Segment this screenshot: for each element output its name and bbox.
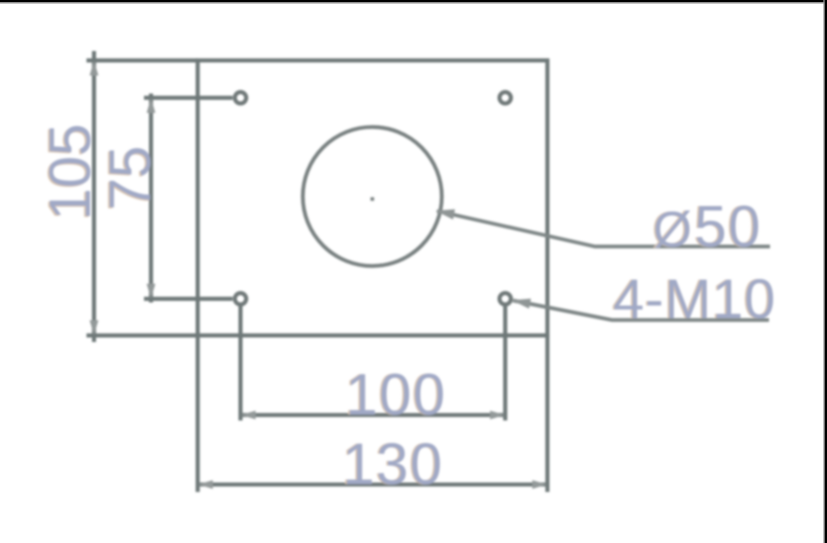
arrow 100 left [241, 411, 256, 420]
extension line bottom for dim 75 [144, 297, 233, 301]
extension line top for dim 75 [144, 96, 233, 100]
plate outline [198, 60, 548, 335]
circle center dot [371, 197, 375, 201]
extension line right for dim 100 [503, 306, 507, 421]
bolt hole top-right [500, 92, 511, 103]
extension line left for dim 130 [196, 335, 200, 492]
arrow 105 top [90, 61, 99, 76]
extension line right for dim 130 [545, 335, 549, 492]
extension line left for dim 100 [238, 306, 242, 421]
arrow 75 top [147, 98, 156, 113]
svg-text:Ø50: Ø50 [653, 195, 762, 260]
bolt hole top-left [235, 92, 246, 103]
leader arrow at circle [436, 209, 456, 219]
leader line for diameter 50 [437, 211, 770, 247]
svg-text:75: 75 [98, 146, 163, 211]
svg-text:100: 100 [345, 363, 446, 428]
arrow 105 bottom [90, 320, 99, 335]
leader line for 4-M10 [513, 301, 769, 321]
dimension line 130 [198, 482, 548, 486]
dimension line 100 [241, 413, 506, 417]
arrow 130 left [198, 480, 213, 489]
frame right border [825, 0, 827, 543]
arrow 100 right [490, 411, 505, 420]
extension line bottom for dim 105 [87, 333, 198, 337]
extension line top for dim 105 [87, 58, 198, 62]
bolt hole bottom-right [500, 293, 511, 304]
svg-text:105: 105 [38, 124, 103, 221]
bolt hole bottom-left [235, 293, 246, 304]
dimension line 105 [92, 51, 96, 342]
dimension line 75 [149, 94, 153, 303]
arrow 130 right [532, 480, 547, 489]
svg-text:4-M10: 4-M10 [613, 267, 776, 330]
svg-text:130: 130 [342, 432, 443, 497]
leader arrow at bolt hole [512, 299, 531, 309]
frame top border [0, 0, 827, 2]
center bore circle [303, 127, 442, 266]
arrow 75 bottom [147, 284, 156, 299]
